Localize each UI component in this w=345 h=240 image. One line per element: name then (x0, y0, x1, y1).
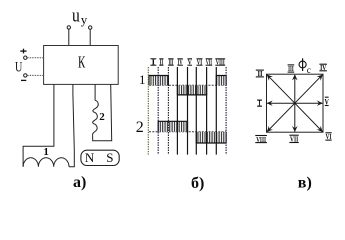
label u_y (72, 6, 88, 27)
interval numeral VI (197, 59, 203, 67)
svg-text:U: U (15, 59, 22, 75)
inductor L2 excitation winding (93, 100, 99, 135)
label IV (319, 64, 327, 72)
row1 pulse I-II (149, 76, 168, 86)
terminal circle U plus (24, 56, 27, 59)
row1 baseline (149, 84, 226, 86)
row1 pulse VIII (216, 76, 226, 86)
svg-text:N: N (85, 150, 95, 165)
vector up-right IV (295, 75, 323, 103)
svg-text:S: S (106, 150, 113, 165)
grid line 3 (176, 67, 178, 155)
row2 negative pulse VI-VIII (196, 132, 226, 143)
svg-text:у: у (81, 12, 88, 27)
label III (288, 65, 295, 73)
vector down-left VIII (267, 103, 295, 131)
interval numeral III (168, 59, 173, 67)
wire excitation bottom loop (93, 84, 112, 140)
svg-text:К: К (78, 53, 86, 72)
interval numeral II (159, 59, 163, 67)
wire armature left leg (23, 84, 54, 166)
grid line 2 (167, 67, 169, 155)
svg-text:с: с (307, 66, 311, 76)
row1 negative pulse IV-VI (177, 85, 206, 95)
wire uy right stub (89, 30, 91, 46)
grid line 1 (157, 67, 159, 155)
row2 baseline (149, 131, 226, 133)
interval numeral IV (177, 59, 183, 67)
interval numeral I (150, 59, 156, 67)
grid line 8 (225, 67, 227, 155)
interval numeral V (187, 59, 192, 67)
svg-text:б): б) (191, 175, 204, 192)
label I (257, 99, 262, 107)
terminal circle uy right (89, 26, 92, 29)
interval numeral VII (206, 59, 213, 67)
stator square (267, 74, 324, 132)
label VII (289, 135, 298, 143)
grid line 0 (147, 67, 149, 155)
svg-text:1: 1 (43, 146, 49, 158)
svg-text:в): в) (298, 174, 312, 191)
svg-text:2: 2 (136, 119, 144, 136)
vector right V (295, 102, 323, 104)
vector up III (294, 75, 296, 103)
wire U plus to box (27, 57, 43, 59)
label II (256, 70, 264, 78)
label V (325, 97, 330, 106)
terminal circle U minus (24, 74, 27, 77)
row2 pulse II-IV (158, 121, 187, 132)
svg-text:u: u (72, 6, 80, 27)
grid line 7 (215, 67, 217, 155)
svg-text:2: 2 (99, 111, 105, 123)
wire uy left stub (68, 29, 70, 45)
minus sign (21, 79, 26, 81)
svg-text:а): а) (73, 174, 86, 191)
vector up-left II (267, 75, 295, 103)
plus sign (20, 49, 26, 54)
wire excitation left stub (94, 84, 96, 100)
terminal circle uy left (67, 26, 70, 29)
vector down-right VI (295, 103, 323, 131)
label Phi_c (299, 58, 311, 76)
grid line 4 (187, 67, 189, 155)
grid line 5 (195, 67, 197, 155)
vector down VII (294, 103, 296, 131)
wire armature right leg (69, 84, 74, 166)
grid line 6 (206, 67, 208, 155)
inductor L1 armature winding (23, 158, 69, 167)
wire U minus to box (27, 74, 43, 76)
label VI (325, 133, 331, 141)
vector left I (267, 102, 295, 104)
magnet N S (81, 150, 119, 166)
label VIII (255, 136, 267, 144)
interval numeral VIII (215, 59, 225, 67)
commutator box K (44, 46, 119, 85)
svg-text:1: 1 (139, 72, 146, 87)
